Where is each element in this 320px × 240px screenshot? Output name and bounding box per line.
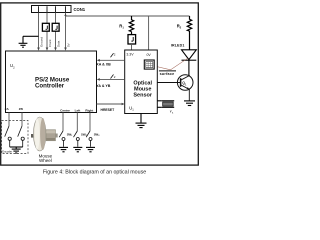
svg-text:3.3V: 3.3V [126,53,134,57]
connector CON1 [32,6,86,13]
encoder dashed enclosure [2,121,28,154]
filter J2 on Data line [52,23,59,31]
crystal Y1 [157,101,174,108]
ground under SW1 [59,147,68,151]
frame border [1,3,199,165]
wire 0V to sensor [148,16,150,50]
wire 3.3V to sensor [131,44,133,50]
ground under Q1 emitter [184,101,195,106]
wire 5V rail [66,15,190,17]
wire Centre button [62,113,64,132]
svg-text:Centre: Centre [60,109,70,113]
svg-text:YA & YB: YA & YB [96,84,110,88]
svg-text:Wheel: Wheel [39,158,52,163]
filter J1 on Clock line [42,23,49,31]
wire XA & XB [96,53,124,67]
switch ZA [5,126,12,147]
svg-text:Left: Left [75,109,81,113]
svg-text:Clock: Clock [48,39,52,47]
optical mouse sensor box U1 [125,50,158,114]
resistor R2 [187,16,191,50]
switch SW3 [86,131,92,147]
svg-text:Sensor: Sensor [133,93,153,99]
svg-text:Encoder: Encoder [2,149,12,153]
resistor R1 [129,16,133,35]
LED IRLED1 symbol [182,50,197,75]
wire Right button [89,113,91,132]
svg-text:0V: 0V [146,53,151,57]
ground symbol near CON1 [19,36,39,47]
wire ZB [21,113,23,127]
light path rays [154,58,188,70]
svg-text:5V: 5V [67,43,71,47]
svg-text:Ground: Ground [40,37,44,47]
ground under sensor [136,114,147,128]
transistor Q1 [157,75,193,101]
svg-text:CON1: CON1 [74,7,86,12]
svg-text:surface: surface [160,72,175,76]
svg-text:HRESET: HRESET [101,108,116,112]
svg-text:Data: Data [57,40,61,47]
svg-text:IRLED1: IRLED1 [171,44,185,48]
surface line [159,70,176,72]
wire Data from CON1 [54,13,57,51]
wire Ground from CON1 [37,13,40,51]
switch ZB [18,126,25,147]
wire HRESET [97,103,125,112]
wire YA & YB [96,75,124,88]
switch SW2 [74,131,80,147]
wire Clock from CON1 [46,13,49,51]
filter J3 on 3.3V line [128,35,136,44]
wire ZA [8,113,10,127]
PS/2 mouse controller box U2 [5,51,97,113]
sensor aperture window [144,60,154,69]
svg-text:Right: Right [85,109,93,113]
mouse wheel photo [31,117,58,151]
svg-text:XA & XB: XA & XB [96,62,111,66]
wire 5V from CON1 [64,13,67,51]
svg-text:Figure 4: Block diagram of an: Figure 4: Block diagram of an optical mo… [43,169,146,175]
ground under SW2 [73,147,82,151]
ground under SW3 [86,147,95,151]
svg-text:Controller: Controller [35,83,65,90]
encoder common wire and ground [10,147,23,153]
switch SW1 [59,131,65,147]
wire Left button [76,113,78,132]
